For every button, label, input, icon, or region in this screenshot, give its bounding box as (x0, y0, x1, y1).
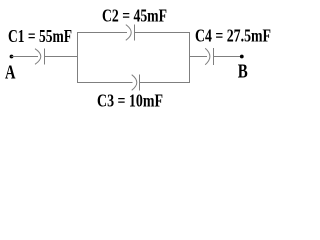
svg-text:C2 = 45mF: C2 = 45mF (102, 5, 167, 25)
wire right junction to C4 (190, 56, 208, 58)
svg-text:C4 = 27.5mF: C4 = 27.5mF (195, 25, 271, 45)
wire C1 to left junction (45, 56, 79, 58)
svg-text:C3 = 10mF: C3 = 10mF (97, 91, 163, 111)
wire right edge of parallel loop (189, 32, 191, 83)
wire left edge of parallel loop (77, 32, 79, 83)
wire C4 to B (214, 56, 242, 58)
node A (10, 55, 14, 59)
capacitor C4 (205, 48, 213, 65)
svg-text:A: A (5, 62, 16, 83)
capacitor C3 (132, 75, 140, 91)
wire bottom edge left of C3 (78, 82, 133, 84)
wire bottom edge right of C3 (140, 82, 191, 84)
capacitor C1 (35, 49, 45, 65)
svg-text:C1 = 55mF: C1 = 55mF (8, 26, 72, 46)
wire top edge right of C2 (135, 32, 191, 34)
wire top edge left of C2 (78, 32, 128, 34)
node B (240, 55, 244, 59)
capacitor C2 (126, 25, 135, 41)
svg-text:B: B (238, 61, 248, 82)
wire A to C1 (12, 56, 39, 58)
